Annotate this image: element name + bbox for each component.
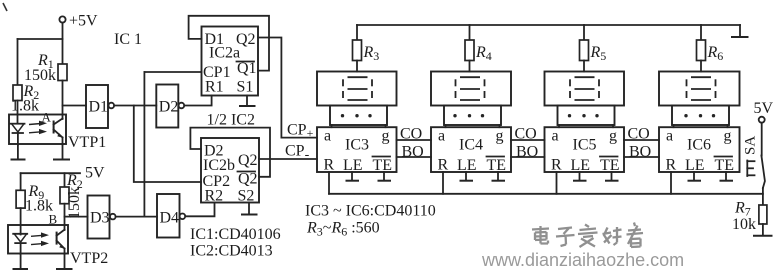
display socket box with dots IC6	[672, 106, 729, 126]
resistor R5	[580, 25, 607, 72]
wire +5V down to R1	[62, 23, 64, 64]
svg-text:IC2b: IC2b	[203, 157, 235, 174]
IC2a pin labels	[203, 31, 257, 96]
svg-text:a: a	[666, 128, 673, 145]
svg-text:a: a	[324, 128, 331, 145]
ground S1	[239, 96, 256, 107]
wire Q1bar feedback loop to D1	[189, 16, 269, 71]
svg-text:SA: SA	[743, 136, 759, 155]
svg-text:5V: 5V	[85, 165, 105, 182]
wire down to R2b 150k	[64, 173, 66, 187]
scan speck top-left corner	[3, 3, 7, 11]
svg-text:D1: D1	[89, 99, 109, 116]
optocoupler VTP2 box	[8, 225, 68, 254]
svg-text:D3: D3	[90, 210, 110, 227]
ground R7	[753, 224, 773, 236]
wire 5V to switch SA	[761, 123, 763, 156]
svg-text:BO: BO	[516, 144, 538, 161]
ground TE IC5	[605, 172, 619, 181]
pin stubs a,g IC5	[558, 125, 560, 127]
switch SA	[747, 156, 765, 189]
ground LE IC4	[460, 172, 474, 181]
wire BO IC5 to IC6	[624, 156, 659, 158]
label R7 10k	[732, 200, 756, 234]
wire +V top bus for R3-R6	[357, 24, 740, 26]
wire left branch down to R2	[17, 39, 19, 85]
svg-text:R: R	[324, 157, 335, 174]
wire Q2 of IC2a to CP+	[258, 38, 317, 138]
IC2b pin labels	[203, 143, 258, 205]
counter IC3 box	[317, 127, 397, 172]
ground LED1 cathode	[11, 145, 26, 160]
inverter D3	[88, 196, 116, 239]
wire Q2 of IC2b to CP-	[259, 158, 317, 160]
svg-text:CO: CO	[515, 126, 537, 143]
svg-text:IC3: IC3	[345, 137, 369, 154]
svg-text:CO: CO	[400, 126, 422, 143]
ground LE IC5	[573, 172, 587, 181]
inverter D4	[157, 194, 185, 238]
wire collector node to D1 input	[63, 105, 87, 107]
wire R pin IC4 to reset line	[442, 172, 444, 194]
resistor R2 body	[13, 85, 22, 101]
wire R1 bottom to phototransistor collector	[62, 81, 64, 120]
phototransistor VTP2	[57, 230, 65, 254]
svg-text:g: g	[609, 128, 617, 145]
IC3 pin labels	[324, 128, 393, 175]
svg-text:g: g	[724, 128, 732, 145]
wire D2 output up to R1 pin of IC2a	[184, 96, 211, 106]
svg-text:TE: TE	[487, 157, 507, 174]
svg-text:IC 1: IC 1	[114, 31, 142, 48]
counter IC4 box	[431, 127, 511, 172]
svg-text:R: R	[438, 157, 449, 174]
svg-text:10k: 10k	[732, 216, 756, 233]
counter IC5 box	[545, 127, 625, 172]
inverter D1	[86, 85, 114, 128]
light arrows VTP1	[29, 121, 47, 135]
seven-segment figure IC4	[456, 77, 485, 100]
svg-text:D4: D4	[160, 210, 180, 227]
IC4 pin labels	[438, 128, 507, 175]
wire D4 output up to R2 pin of IC2b	[185, 203, 214, 217]
wire R9 bottom to LED2 anode	[20, 208, 22, 234]
top-right rail terminal	[731, 25, 749, 37]
resistor R4	[465, 25, 492, 72]
svg-text:IC3 ~ IC6:CD40110: IC3 ~ IC6:CD40110	[305, 203, 436, 220]
label R9 1.8k	[25, 183, 53, 215]
display socket box with dots IC4	[444, 106, 501, 126]
phototransistor VTP1	[54, 119, 63, 145]
svg-text:IC4: IC4	[459, 137, 483, 154]
pin stubs a,g IC4	[445, 125, 447, 127]
svg-text:www.dianziaihaozhe.com: www.dianziaihaozhe.com	[481, 250, 684, 270]
IC5 pin labels	[551, 128, 620, 175]
svg-text:g: g	[382, 128, 390, 145]
svg-text:S1: S1	[237, 79, 254, 96]
svg-text:R1: R1	[205, 79, 224, 96]
wire CO IC3 to IC4	[397, 139, 432, 141]
svg-text:5V: 5V	[754, 100, 774, 117]
svg-text:Q2: Q2	[238, 152, 258, 169]
svg-text:TE: TE	[373, 157, 393, 174]
wire Q2bar feedback loop to D2	[190, 128, 270, 177]
seven-segment figure IC5	[570, 77, 599, 100]
display digit box IC4	[431, 72, 511, 106]
pin stubs a,g IC6	[673, 125, 675, 127]
ground LE IC3	[346, 172, 360, 181]
svg-text:BO: BO	[402, 144, 424, 161]
ground S2	[241, 203, 258, 215]
flip-flop IC2b box	[201, 138, 259, 203]
ground VTP2 emitter	[56, 254, 73, 269]
ground TE IC4	[492, 172, 506, 181]
svg-text:R: R	[666, 157, 677, 174]
svg-text:IC6: IC6	[687, 137, 711, 154]
wire D1 output node down to CP2	[134, 106, 201, 183]
+5V supply terminal	[59, 13, 98, 30]
wire CO IC5 to IC6	[624, 139, 659, 141]
wire 150k bottom to phototransistor 2 collector	[64, 204, 66, 230]
wire CP1 node down to D3 output node	[143, 72, 145, 217]
svg-text:IC5: IC5	[573, 137, 597, 154]
inverter D2	[156, 85, 184, 128]
wire D1 output to D2 input	[114, 105, 156, 107]
ground LE IC6	[688, 172, 702, 181]
watermark chinese calligraphy 電子愛好者	[532, 223, 643, 248]
LED inside VTP1	[11, 124, 25, 145]
svg-text:CO: CO	[628, 126, 650, 143]
resistor R3	[353, 25, 380, 72]
svg-text:Q2: Q2	[238, 171, 258, 188]
ground TE IC6	[720, 172, 734, 181]
display socket box with dots IC5	[558, 106, 615, 126]
label R2 1.8k	[11, 83, 39, 115]
svg-text:1.8k: 1.8k	[11, 98, 39, 115]
wire switch to R7	[762, 188, 764, 205]
resistor R7	[759, 205, 767, 224]
svg-text:VTP2: VTP2	[70, 250, 108, 267]
display digit box IC3	[317, 72, 397, 106]
wire BO IC3 to IC4	[397, 156, 432, 158]
svg-text:VTP1: VTP1	[68, 134, 106, 151]
pin stubs a,g IC3	[331, 125, 333, 127]
IC6 pin labels	[666, 128, 735, 175]
svg-text:a: a	[552, 128, 559, 145]
wire 5V rail to R9 and 150k	[21, 172, 80, 174]
display socket box with dots IC3	[330, 106, 387, 126]
svg-text:D2: D2	[159, 99, 179, 116]
reset line (R pins common)	[329, 193, 763, 195]
svg-text:BO: BO	[629, 144, 651, 161]
svg-text:150k: 150k	[66, 187, 83, 219]
svg-text:g: g	[496, 128, 504, 145]
svg-text:150k: 150k	[24, 67, 56, 84]
resistor R6	[697, 25, 724, 72]
flip-flop IC2a box	[202, 27, 259, 96]
counter IC6 box	[659, 127, 740, 172]
optocoupler VTP1 box	[9, 115, 66, 145]
svg-text:TE: TE	[600, 157, 620, 174]
resistor R1 body	[58, 64, 67, 81]
svg-text:TE: TE	[715, 157, 735, 174]
ground VTP1 emitter	[53, 145, 70, 160]
wire D3 input from VTP2 collector node	[65, 216, 88, 218]
svg-text:S2: S2	[238, 188, 255, 205]
seven-segment figure IC3	[343, 77, 372, 100]
svg-text:+5V: +5V	[69, 13, 98, 30]
wire R pin IC6 to reset line	[670, 172, 672, 194]
svg-text:R: R	[551, 157, 562, 174]
display digit box IC5	[545, 72, 625, 106]
wire D3 output to D4 input	[116, 216, 157, 218]
wire R pin IC5 to reset line	[556, 172, 558, 194]
wire down to R9	[20, 173, 22, 190]
ground LED2 cathode	[13, 254, 29, 269]
wire R2 bottom to LED anode	[17, 101, 19, 124]
svg-text:IC1:CD40106: IC1:CD40106	[190, 226, 281, 243]
svg-text:R2: R2	[205, 188, 224, 205]
wire R pin IC3 to reset line	[328, 172, 330, 194]
wire CO IC4 to IC5	[511, 139, 545, 141]
svg-text:Q1: Q1	[237, 60, 257, 77]
wire CP1 into IC2a	[144, 71, 201, 73]
label R1 150k	[24, 52, 56, 84]
resistor R2b body (150k pull-up)	[60, 187, 69, 204]
LED inside VTP2	[13, 234, 27, 254]
resistor R9 body	[16, 190, 25, 208]
svg-text:IC2a: IC2a	[209, 45, 240, 62]
svg-text:a: a	[438, 128, 445, 145]
ground TE IC3	[378, 172, 392, 181]
light arrows VTP2	[31, 232, 49, 246]
seven-segment figure IC6	[687, 77, 716, 100]
wire +5V node left to R2 branch	[18, 38, 63, 40]
wire BO IC4 to IC5	[511, 156, 545, 158]
display digit box IC6	[659, 72, 740, 106]
svg-text:IC2:CD4013: IC2:CD4013	[190, 243, 273, 260]
5V terminal for SA	[754, 100, 774, 123]
svg-text:1/2 IC2: 1/2 IC2	[207, 112, 255, 129]
